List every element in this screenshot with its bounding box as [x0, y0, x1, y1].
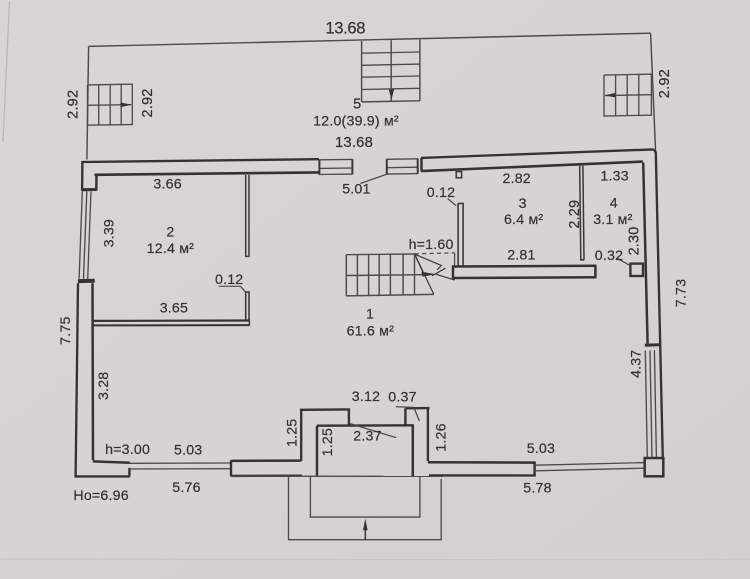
svg-text:6.4 м²: 6.4 м²: [504, 212, 543, 228]
center stairs left edge: [361, 41, 363, 102]
left wall inner face (corner block): [95, 175, 98, 191]
bottom wall outer face (mid piece): [231, 475, 303, 478]
bottom wall inner face (left piece): [93, 461, 130, 462]
room 2 bottom wall (3.65): [93, 319, 250, 322]
svg-text:3.1 м²: 3.1 м²: [593, 212, 632, 228]
interior stairs riser 6: [402, 254, 404, 295]
left stairs direction line: [88, 104, 132, 107]
svg-text:2.92: 2.92: [140, 88, 156, 117]
window in bottom wall (right, 5.78 span): [536, 463, 645, 466]
center stairs tread line 2: [362, 64, 420, 65]
top wall outer face (right span): [421, 149, 654, 158]
svg-text:12.4 м²: 12.4 м²: [147, 241, 195, 257]
center stairs middle rail: [390, 40, 392, 101]
window jamb: [386, 159, 388, 174]
window sill cap (bottom): [78, 279, 95, 283]
top wall outer face (left span): [81, 159, 319, 162]
svg-text:1.25: 1.25: [284, 419, 300, 447]
svg-text:5: 5: [353, 96, 361, 112]
stair break diagonal: [415, 254, 434, 294]
svg-text:61.6 м²: 61.6 м²: [347, 323, 395, 339]
svg-text:3.12: 3.12: [352, 389, 380, 405]
interior stairs bottom edge: [346, 294, 434, 296]
interior stairs riser 1: [345, 255, 347, 296]
stair zone right boundary: [454, 253, 456, 266]
porch door jamb (right): [404, 408, 406, 425]
underline for 0.37: [396, 406, 414, 409]
left stairs tread line 2: [109, 85, 111, 125]
diagonal to wall corner: [436, 274, 455, 280]
porch right top bar outer face: [405, 407, 429, 410]
niche 0.32 square: [630, 264, 643, 276]
right stairs direction line: [605, 94, 651, 97]
window jamb: [318, 160, 320, 175]
center stairs bottom edge: [362, 101, 420, 102]
stair arrow shaft: [415, 254, 424, 273]
right stairs tread line 2: [626, 75, 628, 116]
scan paper edge artifact top-left: [3, 1, 10, 142]
porch left top bar outer face: [300, 408, 350, 411]
porch right wall inner face: [412, 426, 415, 477]
svg-text:5.03: 5.03: [174, 443, 202, 459]
top wall inner face (right span): [421, 162, 643, 172]
interior stairs riser 2: [356, 255, 358, 296]
svg-text:0.32: 0.32: [595, 248, 623, 264]
bottom wall outer face (left piece): [74, 475, 129, 477]
leader for 0.12 (room 2 jamb): [241, 286, 246, 292]
stair arrow zigzag lower: [432, 268, 446, 276]
leader for 5.01: [360, 174, 387, 184]
partition left of room 3 (0.12): [457, 204, 459, 266]
left stairs tread line 3: [120, 84, 122, 124]
window sill cap: [82, 188, 97, 191]
interior stairs top edge: [346, 253, 414, 256]
svg-text:2: 2: [166, 224, 174, 240]
partition right of room 2 (0.12): [245, 175, 247, 257]
svg-text:2.30: 2.30: [627, 227, 643, 256]
porch step edge line across opening: [231, 475, 444, 477]
svg-text:3.66: 3.66: [153, 177, 181, 193]
svg-text:13.68: 13.68: [335, 135, 373, 151]
svg-text:3.39: 3.39: [102, 219, 118, 247]
svg-text:h=3.00: h=3.00: [105, 442, 150, 458]
terrace outline left edge: [87, 46, 89, 159]
svg-text:3: 3: [519, 196, 527, 212]
svg-text:5.78: 5.78: [523, 481, 551, 497]
entry arrow shaft: [364, 529, 366, 540]
window jamb / opening edge: [351, 159, 353, 174]
left wall inner face (lower span): [91, 283, 94, 460]
bottom wall outer face (right piece): [429, 474, 536, 476]
top wall inner face (left span): [95, 172, 320, 174]
svg-text:h=1.60: h=1.60: [409, 237, 454, 253]
window in left wall (room 2, 3.39 span): [79, 192, 82, 279]
svg-text:0.37: 0.37: [388, 389, 416, 405]
svg-text:1.25: 1.25: [320, 428, 336, 456]
right wall inner face: [643, 163, 647, 344]
center stairs tread line 4: [362, 88, 420, 89]
leader for 0.37: [414, 408, 420, 421]
right wall outer face: [654, 149, 663, 458]
center stairs tread line 3: [362, 76, 420, 77]
svg-text:5.03: 5.03: [527, 441, 555, 457]
svg-text:2.29: 2.29: [567, 200, 583, 229]
small square mark on top wall: [456, 172, 461, 178]
window jamb: [533, 463, 535, 476]
svg-text:1: 1: [366, 307, 374, 323]
svg-text:2.92: 2.92: [657, 69, 673, 98]
window jamb: [128, 468, 130, 477]
stair arrow zigzag upper: [415, 254, 442, 270]
leader for 0.32: [618, 259, 630, 266]
window jamb / wall cap: [230, 460, 232, 476]
right stairs arrowhead: [605, 93, 616, 98]
center stairs right edge: [419, 40, 421, 101]
svg-text:0.12: 0.12: [427, 185, 455, 201]
bottom wall inner face (right piece): [428, 461, 536, 464]
svg-text:3.65: 3.65: [160, 300, 188, 316]
center stairs down arrowhead: [389, 90, 394, 100]
door jamb stub below opening (room 2): [245, 292, 247, 320]
porch door jamb (left): [348, 410, 350, 426]
bottom wall inner face (mid piece): [231, 459, 301, 462]
center stairs tread line 1: [362, 52, 420, 53]
svg-text:12.0(39.9) м²: 12.0(39.9) м²: [313, 113, 399, 129]
leader for 0.12 (room 3 partition): [448, 199, 457, 206]
svg-text:0.12: 0.12: [215, 272, 243, 288]
svg-text:3.28: 3.28: [96, 372, 112, 400]
left wall outer face (corner block): [81, 161, 84, 191]
svg-text:Ho=6.96: Ho=6.96: [73, 488, 128, 504]
svg-text:4: 4: [610, 195, 618, 211]
porch threshold / inner face line: [317, 424, 414, 427]
interior stairs riser 4: [378, 254, 380, 295]
svg-text:5.01: 5.01: [342, 181, 370, 197]
terrace outline right edge: [651, 33, 656, 151]
interior stairs middle line: [346, 274, 422, 277]
interior stairs riser 3: [368, 254, 370, 295]
svg-text:1.26: 1.26: [433, 423, 449, 451]
interior stairs riser 7: [414, 254, 416, 295]
porch left wall outer face: [300, 410, 302, 461]
interior stairs riser 5: [389, 254, 391, 295]
window jamb: [417, 159, 419, 174]
porch right wall outer face: [427, 408, 429, 461]
terrace right stairs box: [604, 74, 651, 116]
stair arrow head: [422, 272, 437, 277]
top wall end cap: [420, 158, 423, 171]
svg-text:7.75: 7.75: [58, 316, 74, 344]
svg-text:2.82: 2.82: [502, 171, 530, 187]
svg-text:13.68: 13.68: [325, 19, 365, 38]
porch outer step: [289, 476, 442, 539]
window in top wall (at stairs landing): [387, 158, 419, 161]
scan fold shadow line bottom: [0, 559, 750, 560]
svg-text:1.33: 1.33: [600, 169, 628, 185]
svg-text:5.76: 5.76: [172, 480, 200, 496]
wall bar below rooms 3/4 (2.81): [452, 265, 597, 268]
porch left wall inner face: [316, 426, 319, 476]
svg-text:4.37: 4.37: [629, 350, 645, 378]
right stairs tread line 1: [615, 75, 617, 116]
porch inner step: [310, 476, 420, 517]
svg-text:2.92: 2.92: [65, 90, 81, 119]
terrace left stairs box: [88, 84, 133, 125]
window in bottom wall (left, 5.76 span): [130, 462, 231, 464]
leader for 2.37: [350, 424, 396, 438]
terrace outline top edge: [89, 33, 651, 46]
svg-text:2.37: 2.37: [353, 429, 381, 445]
window in right wall (4.37 span): [645, 351, 647, 458]
svg-text:2.81: 2.81: [507, 248, 535, 264]
corner column (bottom-right): [645, 458, 664, 476]
partition end cap: [245, 255, 250, 257]
left wall outer face (lower span): [76, 283, 78, 477]
right stairs tread line 3: [638, 74, 640, 115]
window in top wall (left): [319, 158, 353, 160]
entry arrow head: [363, 519, 368, 531]
window sill cap (right wall): [645, 343, 659, 346]
left stairs arrowhead: [121, 103, 132, 108]
partition between rooms 3 and 4: [580, 166, 581, 260]
svg-text:7.73: 7.73: [674, 279, 690, 307]
dashed line h=1.60 boundary: [415, 252, 455, 255]
leader underline for 0.12 (room 2): [219, 285, 241, 287]
left stairs tread line 1: [98, 85, 100, 125]
